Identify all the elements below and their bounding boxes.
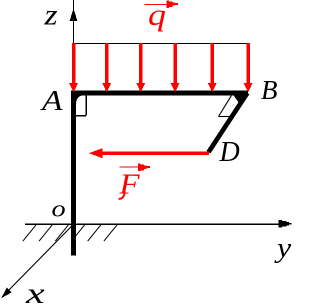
svg-text:B: B	[261, 75, 278, 105]
svg-text:y: y	[274, 231, 292, 263]
svg-text:o: o	[52, 195, 66, 222]
svg-text:A: A	[40, 84, 64, 116]
svg-text:x: x	[25, 276, 45, 305]
svg-text:q: q	[148, 0, 166, 32]
svg-text:z: z	[43, 0, 57, 31]
svg-text:D: D	[219, 137, 240, 168]
svg-text:F: F	[118, 169, 140, 200]
